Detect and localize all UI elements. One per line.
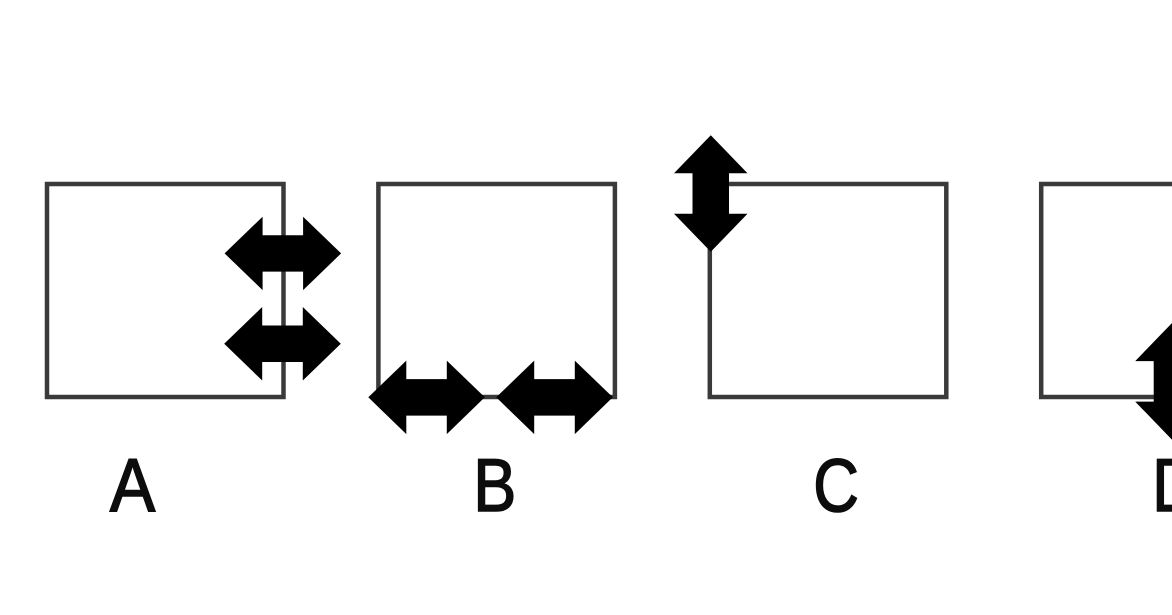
svg-text:C: C bbox=[813, 443, 859, 528]
arrow A lower (horizontal double arrow on right edge of A) bbox=[224, 307, 341, 381]
square A bbox=[47, 184, 284, 397]
square B bbox=[378, 184, 615, 397]
arrow B left (horizontal double arrow on bottom edge of B) bbox=[368, 361, 485, 435]
arrow B right (horizontal double arrow on bottom edge of B) bbox=[496, 361, 613, 435]
arrow A upper (horizontal double arrow on right edge of A) bbox=[225, 217, 342, 290]
square C bbox=[710, 184, 947, 397]
svg-text:D: D bbox=[1152, 443, 1172, 527]
arrow D (vertical double arrow on bottom edge of D, cut by image edge) bbox=[1135, 323, 1172, 440]
svg-text:A: A bbox=[110, 444, 155, 528]
svg-text:B: B bbox=[473, 442, 516, 527]
square D bbox=[1041, 184, 1172, 397]
arrow C (vertical double arrow on top-left corner of C) bbox=[674, 135, 748, 252]
